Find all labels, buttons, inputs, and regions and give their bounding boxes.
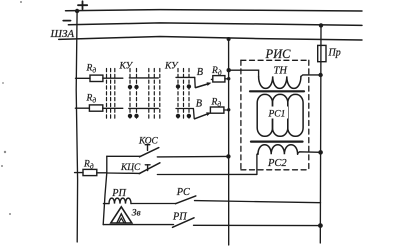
svg-text:КУ: КУ	[164, 62, 179, 72]
node: row1 to right bus	[227, 77, 230, 80]
svg-text:Rд: Rд	[211, 66, 222, 77]
svg-text:Rд: Rд	[86, 64, 97, 75]
scan speckles	[1, 1, 22, 215]
svg-text:КЦС: КЦС	[120, 163, 141, 173]
svg-text:РС2: РС2	[267, 158, 287, 169]
contact columns КУ group 1 (dashed)	[107, 69, 115, 121]
bus ШЗА (alarm bus)	[50, 28, 363, 40]
fuse Пр	[318, 25, 341, 243]
resistor R_д (row 2, right)	[210, 97, 228, 113]
svg-text:Rд: Rд	[211, 97, 222, 108]
svg-text:ШЗА: ШЗА	[50, 28, 75, 40]
wire: left vertical feeder from + bus	[76, 11, 77, 242]
contact РП (relay contact)	[172, 212, 320, 228]
contact КОС (limit switch)	[107, 136, 159, 156]
svg-text:РИС: РИС	[265, 47, 292, 61]
svg-text:КУ: КУ	[119, 61, 134, 71]
wire: right vertical bus from ШЗА	[228, 39, 230, 245]
node: РП wire on fuse vertical	[318, 223, 323, 228]
relay box РИС (dashed enclosure)	[241, 60, 309, 170]
node: ТН lead on fuse wire	[318, 73, 322, 77]
wire: КЦС to РС2 left lead	[157, 173, 257, 175]
resistor R_д (row 2, left)	[75, 94, 102, 112]
wire: КОС to right bus	[157, 155, 228, 158]
svg-text:РС1: РС1	[268, 110, 286, 120]
node: КОС wire on right bus	[226, 154, 230, 158]
wire row2 segment through KУ group 4	[176, 108, 193, 110]
svg-text:РП: РП	[111, 188, 126, 199]
svg-text:В: В	[197, 67, 203, 78]
node: right bus on ШЗА	[227, 37, 231, 41]
node: РС2 lead on fuse wire	[318, 150, 323, 155]
contact columns КУ group 3 (dashed)	[149, 69, 160, 121]
contact КЦС (limit switch)	[107, 163, 160, 174]
wire row1 segment through KУ group 1	[103, 77, 123, 79]
wire row2 segment through KУ group 1	[103, 107, 123, 109]
contact columns КУ group 4 (dashed, with closed-contact dots)	[176, 69, 191, 121]
wire: bell branch	[103, 224, 173, 226]
svg-text:В: В	[196, 98, 202, 109]
resistor R_д (row 1, right)	[211, 66, 229, 82]
contact РС (relay contact)	[176, 187, 321, 204]
svg-text:РС: РС	[176, 187, 190, 198]
switch В (row 2)	[193, 98, 211, 119]
winding ТН (primary coil)	[229, 66, 321, 89]
node: junction of feeder with + bus	[75, 9, 79, 13]
wire row1 segment through KУ groups 2-3	[129, 77, 158, 79]
resistor R_д (bottom)	[75, 160, 107, 176]
svg-text:Rд: Rд	[83, 160, 94, 171]
node: row2 to right bus	[227, 108, 230, 111]
svg-text:ТН: ТН	[274, 66, 289, 77]
wire row1 segment through KУ group 4	[176, 76, 195, 78]
bus + (positive supply bus)	[66, 1, 363, 11]
wire row2 segment through KУ groups 2-3	[129, 107, 159, 109]
resistor R_д (row 1, left)	[76, 64, 103, 82]
node: fuse wire on − bus	[319, 23, 323, 27]
winding РС1 (first secondary)	[257, 94, 303, 136]
winding РС2 (second secondary)	[257, 145, 321, 175]
switch В (row 1)	[195, 67, 212, 87]
core line (between ТН and РС1)	[250, 90, 304, 92]
svg-text:РП: РП	[172, 212, 187, 223]
core line (between РС1 and РС2)	[251, 141, 303, 143]
bus − (negative supply bus)	[63, 21, 362, 26]
wire: branch up to КОС	[106, 156, 108, 173]
svg-text:Зв: Зв	[132, 209, 141, 219]
wire: branch down to РП and Зв	[103, 173, 107, 225]
svg-text:КОС: КОС	[138, 136, 159, 146]
svg-text:Пр: Пр	[328, 48, 341, 59]
svg-text:Rд: Rд	[86, 94, 97, 105]
node: ТН lead on right bus	[227, 68, 231, 72]
bell Зв	[111, 207, 141, 223]
contact columns КУ group 2 (dashed, with closed-contact dots)	[128, 69, 139, 121]
relay coil РП	[104, 188, 177, 204]
